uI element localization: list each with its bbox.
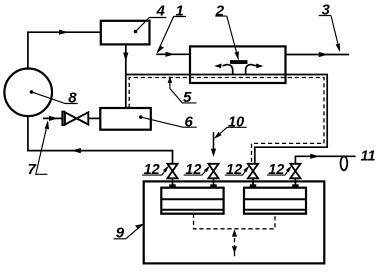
leader arrow label 12a [163,166,169,173]
leader arrow label 7 [45,120,50,129]
wire: left vertical main line below pump [28,116,173,164]
leader arrow label 2 [235,51,239,60]
sprayer right curved jet [246,65,256,75]
flow arrow outlet 3 [319,52,328,57]
leader label 3 [319,16,340,51]
flange stub 12c [250,184,256,188]
wire: solid recycle channel box4-line to valve 12c [126,75,327,164]
svg-text:11: 11 [361,149,376,165]
leader arrow label 12b [204,166,210,173]
flange stub 12b [210,184,216,188]
leader label 12b [184,167,209,175]
leader arrow label 9 [135,224,143,230]
stem valve 12c to tank [252,178,254,188]
wire: dashed recycle channel box6 to valve 12c [129,78,324,164]
sprayer bar inside box 2 [231,61,247,63]
flow arrow box4 down stem [123,53,128,62]
leader label 9 [114,225,143,239]
leader dot label 8 [30,90,34,94]
wire: inlet 1 into box 2 [156,53,190,55]
box 9 (chamber) [144,181,325,263]
stem valve 12a to tank [172,178,174,188]
stem valve 12b to tank [213,178,215,188]
svg-text:9: 9 [116,225,125,242]
leader lines [32,16,340,239]
flow arrow bottom-left return [71,148,81,153]
box 4 (apparatus) [101,21,150,45]
svg-text:12: 12 [226,162,242,178]
box 2 (mixer) [190,46,286,83]
wire: inlet to check valve 7 [43,117,62,119]
flange stub 12d [292,184,298,188]
leader label 4 [136,18,167,32]
wire: valve 12d up and right to drain 11 [295,156,355,164]
sprayer left curved jet [223,65,233,75]
check valve 7: bowtie [65,112,88,124]
leader arrow label 5 [168,76,172,83]
stem valve 12d to tank [294,178,296,188]
svg-text:6: 6 [185,114,194,131]
svg-text:3: 3 [322,2,331,19]
pump circle 8 [4,69,52,117]
svg-text:2: 2 [215,2,225,19]
leader label 6 [141,117,197,127]
leader label 7 [36,122,48,174]
flow arrow inlet 10 [211,149,216,157]
leader arrow label 3 [336,43,340,52]
wire: outlet 3 from box 2 [286,54,350,56]
leader label 12c [225,167,248,175]
pigtail loop near 11 [341,156,348,170]
valve 12c [248,164,258,179]
wire: valve 7 to box 6 [88,117,100,119]
leader dot label 4 [134,30,138,34]
sprayer left arrowhead [214,64,221,69]
svg-text:5: 5 [183,89,192,106]
svg-text:8: 8 [68,89,77,106]
leader label 12a [142,167,167,175]
tank 1 inner plates [161,199,223,210]
leader label 8 [32,92,78,104]
svg-text:1: 1 [176,3,184,20]
leader label 1 [157,17,186,53]
leader label 2 [215,16,238,58]
flow arrow top-left wire [59,30,69,35]
dashed drain center line [234,231,236,258]
inlet line 10 above valve 12b [213,132,215,153]
check valve 7: seat bar [62,112,64,126]
leader label 12d [267,167,291,175]
valve 12a [167,164,177,179]
wire: left vertical main line above pump [28,32,101,68]
svg-text:4: 4 [156,3,166,20]
svg-text:12: 12 [185,162,201,178]
flange stub 12a [169,184,175,188]
leader label 10 [215,127,247,138]
svg-text:12: 12 [268,162,284,178]
leader arrow label 10 [214,132,221,139]
leader arrow label 12d [286,166,292,173]
svg-text:10: 10 [228,115,244,131]
valve 12d [290,164,300,179]
svg-text:7: 7 [28,161,37,178]
flow arrow to drain 11 [310,154,319,159]
wire: box 4 down to box 6 [125,44,127,108]
tank 2 body [244,188,306,214]
leader arrow label 1 [157,46,164,54]
valve 12b [208,164,218,179]
drain arrow down [232,246,237,253]
leader dot label 6 [139,115,143,119]
box 6 (apparatus) [100,108,151,130]
sprayer right arrowhead [256,64,263,69]
tank 2 inner plates [244,199,306,210]
flow arrow into check valve 7 [49,116,58,121]
leader label 5 [170,78,197,103]
leader arrow label 12c [243,166,249,173]
tank 1 body [161,188,223,214]
drain arrow up [232,229,237,236]
dashed drain from tank 1 [194,214,276,229]
svg-text:12: 12 [144,162,160,178]
flow arrow inlet 1 [166,52,175,57]
